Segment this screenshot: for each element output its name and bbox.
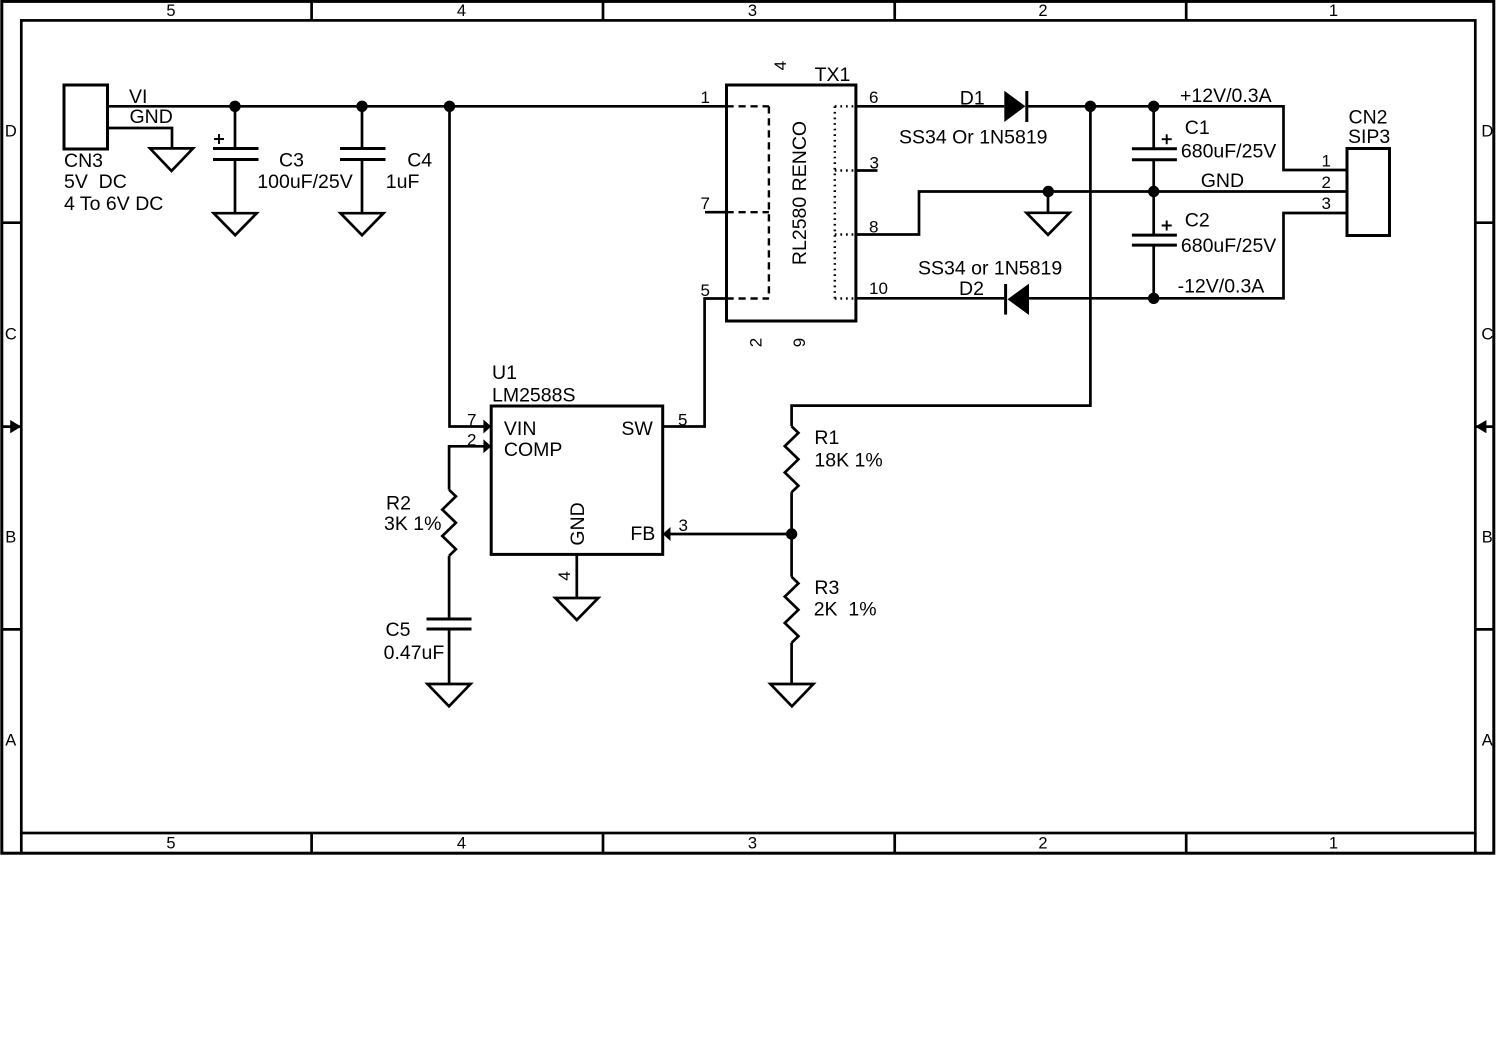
svg-text:A: A bbox=[5, 732, 16, 750]
svg-text:18K 1%: 18K 1% bbox=[814, 450, 882, 472]
svg-text:2: 2 bbox=[1322, 173, 1331, 192]
connector CN3 bbox=[64, 85, 108, 149]
wire R1 feed from +12V bbox=[792, 106, 1091, 426]
svg-text:A: A bbox=[1482, 732, 1493, 750]
svg-text:3: 3 bbox=[1322, 194, 1331, 213]
svg-text:C3: C3 bbox=[279, 150, 304, 172]
wire D1 to +12V rail bbox=[1027, 106, 1347, 170]
wire C1 bottom bbox=[1152, 160, 1155, 192]
svg-text:GND: GND bbox=[1201, 170, 1244, 192]
connector CN2 box bbox=[1347, 149, 1390, 236]
wire TX1 pin10 to D2 bbox=[856, 297, 1004, 300]
svg-text:3K 1%: 3K 1% bbox=[384, 513, 441, 535]
C1 plus sign bbox=[1162, 134, 1172, 144]
ruler row letters left bbox=[5, 123, 17, 750]
svg-text:RL2580 RENCO: RL2580 RENCO bbox=[789, 121, 811, 265]
wire R3 to ground bbox=[790, 643, 793, 684]
svg-text:4 To 6V DC: 4 To 6V DC bbox=[64, 193, 163, 215]
top ruler ticks bbox=[312, 1, 1187, 20]
CN3 labels bbox=[64, 150, 163, 215]
svg-text:SS34 or 1N5819: SS34 or 1N5819 bbox=[918, 257, 1062, 279]
wire R1 to junction bbox=[790, 492, 793, 577]
right ruler ticks bbox=[1475, 223, 1494, 630]
svg-text:D: D bbox=[1481, 123, 1493, 141]
wire R2 to C5 bbox=[448, 556, 451, 619]
svg-text:7: 7 bbox=[701, 194, 710, 213]
svg-text:4: 4 bbox=[555, 571, 574, 580]
svg-text:1: 1 bbox=[701, 88, 710, 107]
svg-text:COMP: COMP bbox=[504, 439, 563, 461]
svg-text:2: 2 bbox=[1038, 835, 1047, 853]
ground GND net bbox=[1027, 213, 1070, 235]
capacitor C5 bbox=[427, 619, 472, 629]
wire U1 SW to TX1 pin5 bbox=[663, 299, 727, 427]
svg-text:VI: VI bbox=[129, 86, 147, 108]
svg-text:C: C bbox=[5, 326, 17, 344]
svg-text:TX1: TX1 bbox=[815, 64, 851, 86]
svg-text:6: 6 bbox=[869, 88, 878, 107]
svg-text:FB: FB bbox=[630, 523, 655, 545]
right center arrow bbox=[1475, 420, 1486, 433]
capacitor C3 bbox=[213, 149, 259, 160]
svg-text:SIP3: SIP3 bbox=[1348, 126, 1390, 148]
TX1 pin3 stub bbox=[856, 169, 878, 172]
wire D2 to -12V rail bbox=[1029, 213, 1347, 298]
svg-text:C5: C5 bbox=[386, 619, 411, 641]
capacitor C4 bbox=[340, 149, 386, 160]
svg-text:1: 1 bbox=[1322, 152, 1331, 171]
svg-text:680uF/25V: 680uF/25V bbox=[1181, 235, 1276, 257]
svg-text:D2: D2 bbox=[959, 278, 984, 300]
svg-text:4: 4 bbox=[771, 61, 790, 70]
svg-text:1: 1 bbox=[1329, 835, 1338, 853]
svg-text:R1: R1 bbox=[814, 427, 839, 449]
C3 plus sign bbox=[214, 134, 224, 144]
capacitor C2 bbox=[1132, 235, 1177, 245]
node FB junction bbox=[786, 528, 797, 539]
ground U1 bbox=[555, 598, 598, 620]
svg-text:2K 1%: 2K 1% bbox=[814, 598, 877, 620]
wire C3 top bbox=[234, 106, 237, 148]
svg-text:7: 7 bbox=[467, 411, 476, 430]
TX1 pin7 stub bbox=[705, 211, 727, 214]
svg-text:+12V/0.3A: +12V/0.3A bbox=[1180, 85, 1272, 107]
svg-text:B: B bbox=[5, 529, 16, 547]
svg-text:3: 3 bbox=[748, 835, 757, 853]
svg-text:1uF: 1uF bbox=[386, 171, 420, 193]
svg-text:2: 2 bbox=[747, 338, 766, 347]
wire VIN feed down to U1 pin7 bbox=[450, 106, 485, 426]
ground C5 bbox=[428, 684, 471, 706]
resistor R3 bbox=[785, 577, 799, 643]
svg-text:3: 3 bbox=[748, 2, 757, 20]
svg-text:1: 1 bbox=[1329, 2, 1338, 20]
wire C4 top bbox=[361, 106, 364, 148]
bottom ruler ticks bbox=[21, 833, 1475, 853]
svg-text:4: 4 bbox=[457, 2, 466, 20]
U1 pin7 arrow bbox=[483, 420, 491, 434]
wire GND symbol drop bbox=[1047, 192, 1050, 213]
wire U1 pin2 to R2 bbox=[449, 446, 484, 490]
TX1 primary dashed winding bbox=[727, 106, 769, 298]
svg-text:C2: C2 bbox=[1185, 210, 1210, 232]
U1 FB arrow bbox=[663, 527, 671, 541]
diode D1 bbox=[1004, 91, 1025, 122]
svg-text:SW: SW bbox=[621, 418, 653, 440]
left ruler ticks bbox=[2, 223, 22, 630]
resistor R1 bbox=[785, 426, 799, 492]
wire C2 bottom bbox=[1152, 245, 1155, 298]
svg-text:2: 2 bbox=[1038, 2, 1047, 20]
ruler column numbers top bbox=[166, 2, 1338, 20]
left center arrow bbox=[10, 420, 21, 433]
wire C2 top bbox=[1152, 192, 1155, 236]
svg-text:CN3: CN3 bbox=[64, 150, 103, 172]
svg-text:B: B bbox=[1482, 529, 1493, 547]
wire C3 bottom bbox=[234, 160, 237, 214]
svg-text:LM2588S: LM2588S bbox=[492, 385, 575, 407]
svg-text:C4: C4 bbox=[407, 150, 432, 172]
ruler column numbers bottom bbox=[166, 835, 1338, 853]
svg-text:C1: C1 bbox=[1185, 117, 1210, 139]
op-amp U1 LM2588S box bbox=[491, 406, 663, 554]
U1 pin2 arrow bbox=[483, 439, 491, 453]
svg-text:10: 10 bbox=[869, 279, 888, 298]
TX1 secondary dotted winding bbox=[835, 106, 856, 298]
svg-text:VIN: VIN bbox=[504, 418, 537, 440]
diode D2 bbox=[1004, 284, 1007, 315]
svg-text:100uF/25V: 100uF/25V bbox=[257, 171, 352, 193]
svg-text:2: 2 bbox=[467, 431, 476, 450]
svg-text:0.47uF: 0.47uF bbox=[384, 642, 445, 664]
capacitor C1 bbox=[1132, 149, 1177, 160]
wire C5 bottom bbox=[448, 629, 451, 684]
wire C1 top bbox=[1152, 106, 1155, 149]
svg-text:D: D bbox=[5, 123, 17, 141]
svg-text:4: 4 bbox=[457, 835, 466, 853]
ground CN3 bbox=[150, 148, 193, 171]
svg-text:3: 3 bbox=[679, 516, 688, 535]
svg-text:D1: D1 bbox=[960, 88, 985, 110]
wire U1 GND pin bbox=[575, 554, 578, 598]
svg-text:5V DC: 5V DC bbox=[64, 171, 127, 193]
resistor R2 bbox=[442, 490, 456, 556]
ground R3 bbox=[770, 684, 813, 706]
wire VI bus CN3 to TX1 pin1 bbox=[108, 105, 727, 108]
svg-text:5: 5 bbox=[166, 835, 175, 853]
ground C4 bbox=[341, 213, 384, 235]
svg-text:9: 9 bbox=[790, 338, 809, 347]
wire TX1 pin8 GND net bbox=[856, 192, 1347, 235]
svg-text:680uF/25V: 680uF/25V bbox=[1181, 141, 1276, 163]
ruler row letters right bbox=[1481, 123, 1493, 750]
svg-text:SS34 Or 1N5819: SS34 Or 1N5819 bbox=[899, 127, 1048, 149]
transformer TX1 box bbox=[727, 85, 856, 321]
svg-text:-12V/0.3A: -12V/0.3A bbox=[1178, 275, 1265, 297]
svg-text:5: 5 bbox=[701, 281, 710, 300]
wire TX1 pin6 to D1 bbox=[856, 105, 1004, 108]
wire FB net bbox=[670, 533, 792, 536]
svg-text:R3: R3 bbox=[814, 577, 839, 599]
C2 plus sign bbox=[1162, 221, 1172, 231]
border frame inner bbox=[21, 20, 1475, 833]
svg-text:R2: R2 bbox=[386, 493, 411, 515]
svg-text:C: C bbox=[1481, 326, 1493, 344]
wire C4 bottom bbox=[361, 160, 364, 214]
svg-text:5: 5 bbox=[166, 2, 175, 20]
svg-text:U1: U1 bbox=[492, 362, 517, 384]
ground C3 bbox=[214, 213, 257, 235]
svg-text:GND: GND bbox=[130, 106, 173, 128]
wire CN3 GND stub bbox=[108, 128, 173, 148]
svg-text:GND: GND bbox=[567, 502, 589, 545]
node junction dots bbox=[229, 101, 240, 112]
